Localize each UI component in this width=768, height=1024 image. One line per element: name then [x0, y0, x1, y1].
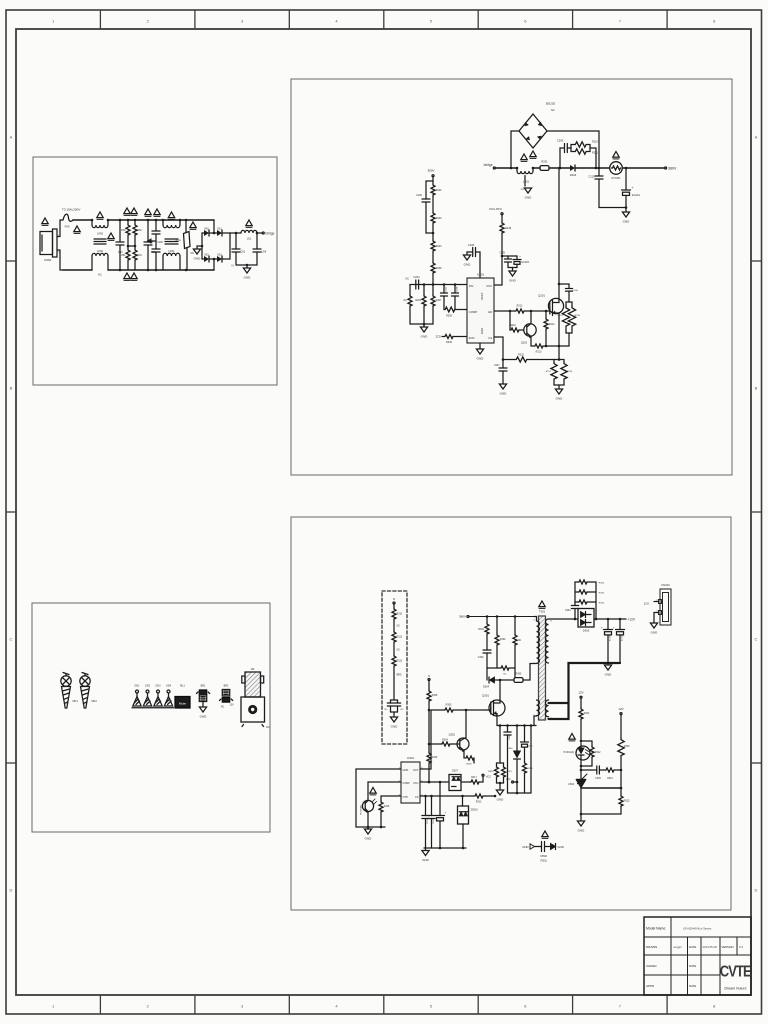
svg-text:GND: GND — [403, 768, 409, 772]
svg-text:380V: 380V — [459, 615, 466, 619]
resistor R206 — [423, 283, 426, 286]
resistor R317 — [461, 781, 470, 783]
capacitor EC312 — [439, 782, 441, 816]
svg-text:MK1: MK1 — [73, 699, 79, 703]
svg-text:R61: R61 — [121, 255, 126, 257]
wire 380V rail to transformer — [469, 616, 534, 618]
svg-text:D306: D306 — [507, 748, 513, 750]
wire OUT to gate drive — [420, 710, 431, 769]
svg-text:ZCD: ZCD — [469, 336, 475, 340]
svg-text:CVTE: CVTE — [720, 964, 752, 981]
net label 380V — [665, 167, 667, 169]
capacitor EC306 — [619, 619, 621, 630]
svg-text:R220: R220 — [592, 141, 598, 144]
PFC block frame — [291, 79, 732, 475]
svg-text:R203: R203 — [436, 217, 442, 220]
svg-text:B: B — [10, 386, 13, 391]
snubber resistor R221 — [571, 148, 574, 152]
svg-text:VCC-PFC: VCC-PFC — [489, 207, 503, 211]
inductor L201 — [516, 167, 519, 170]
resistor R305 — [514, 678, 523, 683]
svg-text:12V: 12V — [578, 691, 583, 695]
wire NTC201 to 380V terminal — [622, 167, 664, 169]
resistor R213 — [531, 345, 534, 347]
svg-text:R316: R316 — [384, 806, 390, 808]
svg-text:R62: R62 — [138, 230, 143, 232]
bridge left node wire — [201, 233, 203, 259]
svg-text:GND: GND — [558, 845, 564, 849]
diode D306 — [516, 724, 519, 727]
transistor Q301 MOSFET — [489, 700, 505, 716]
svg-text:Q201: Q201 — [538, 294, 545, 298]
wire aux return — [530, 726, 532, 794]
diode pack D307 — [449, 775, 461, 791]
svg-text:R215: R215 — [558, 315, 564, 317]
svg-text:N: N — [393, 597, 395, 601]
svg-text:R313: R313 — [397, 661, 403, 663]
svg-text:LF60: LF60 — [97, 249, 103, 253]
mechanical parts block frame — [32, 603, 270, 832]
bridge diode D61 — [209, 232, 217, 234]
ground of sense resistors — [554, 384, 564, 386]
resistor R212 — [515, 309, 524, 313]
rectifier D303 — [578, 609, 594, 628]
svg-text:NC: NC — [551, 108, 555, 112]
svg-text:NTC201: NTC201 — [612, 177, 622, 180]
snubber resistor R325 — [575, 591, 578, 593]
resistor R61 — [127, 246, 129, 249]
svg-text:R311: R311 — [584, 712, 590, 715]
svg-text:C218: C218 — [468, 243, 475, 247]
svg-text:C: C — [10, 637, 13, 642]
bridge diode D60 — [202, 232, 204, 234]
resistor R323 — [474, 794, 483, 798]
capacitor C62 — [235, 233, 237, 249]
svg-text:R222: R222 — [518, 354, 524, 357]
title block grid — [644, 936, 751, 938]
resistor R201 — [540, 166, 549, 171]
ground of C207 — [499, 384, 507, 396]
resistor R201b — [432, 177, 434, 184]
svg-text:R302: R302 — [500, 638, 506, 641]
X-capacitor C60 — [119, 219, 122, 222]
resistor R313a — [393, 649, 395, 655]
svg-text:NC: NC — [191, 252, 195, 255]
svg-text:R322: R322 — [624, 800, 630, 803]
svg-text:C208: C208 — [457, 286, 459, 292]
svg-text:D61: D61 — [217, 229, 222, 231]
svg-text:GD1: GD1 — [134, 685, 140, 688]
svg-text:A: A — [10, 135, 13, 140]
ground of regulator — [580, 814, 582, 821]
svg-text:bridge: bridge — [484, 163, 493, 167]
svg-text:OTP: OTP — [403, 795, 409, 799]
svg-text:EC201: EC201 — [632, 193, 640, 197]
svg-text:LR-N2N4X4Lxl Series: LR-N2N4X4Lxl Series — [683, 927, 712, 931]
svg-text:0-3: 0-3 — [739, 945, 743, 949]
svg-text:U301: U301 — [407, 756, 415, 760]
bridge diode D63 — [209, 258, 217, 260]
resistor R63 — [134, 246, 136, 249]
sense resistor R321 — [503, 763, 505, 766]
capacitor C314 — [431, 796, 433, 816]
wire GND pin loop — [356, 769, 401, 827]
wire divider bottom — [580, 788, 582, 814]
svg-text:R206: R206 — [416, 300, 422, 302]
transistor Q201 MOSFET — [548, 298, 563, 313]
bridge right node wire — [229, 233, 231, 259]
transformer T301 — [539, 616, 546, 720]
sense resistor R320 — [497, 762, 504, 764]
svg-text:COMP: COMP — [403, 782, 411, 785]
svg-text:12V,: 12V, — [644, 602, 650, 606]
svg-text:R310: R310 — [397, 614, 403, 616]
wire rail into primary pin — [534, 617, 537, 622]
warning triangle near C60 — [108, 233, 114, 240]
diode D304 — [488, 677, 490, 683]
svg-text:(T501): (T501) — [540, 860, 547, 863]
svg-text:L201: L201 — [523, 180, 530, 184]
wire CS route — [494, 337, 515, 360]
wire secondary return bus — [549, 663, 621, 703]
resistor R219 — [501, 215, 503, 222]
resistor R222 — [515, 357, 527, 362]
capacitor EC305 — [607, 619, 609, 630]
capacitor C205 — [501, 255, 504, 258]
border column ticks and numbers — [99, 10, 101, 29]
capacitor C207 — [502, 360, 504, 369]
wire L61 to bridge terminal — [257, 232, 262, 234]
svg-text:BD202: BD202 — [546, 102, 556, 106]
warning triangle near RV60 — [190, 222, 196, 229]
svg-text:380V: 380V — [427, 169, 434, 173]
wire aux bottom bus — [508, 792, 532, 794]
wire R215 R216 bottom — [566, 332, 572, 334]
svg-text:DATE: DATE — [689, 984, 696, 988]
resistor R207 — [432, 285, 434, 296]
svg-text:R221: R221 — [592, 152, 598, 155]
optocoupler PC301A — [576, 746, 590, 760]
resistor R211 — [509, 311, 511, 330]
connector CN301 — [660, 589, 671, 625]
svg-text:BR2: BR2 — [224, 685, 229, 688]
svg-text:+: + — [601, 626, 603, 630]
ground of option box — [391, 711, 398, 713]
svg-text:NC: NC — [397, 626, 401, 628]
svg-text:C205: C205 — [499, 252, 505, 255]
svg-text:R219: R219 — [505, 226, 512, 230]
svg-text:GD2: GD2 — [145, 685, 151, 688]
capacitor C320 — [393, 673, 395, 700]
svg-text:LF60: LF60 — [97, 232, 103, 236]
capacitor C218 — [476, 252, 481, 278]
ground of VCC caps — [508, 267, 517, 269]
bypass bridge BD202 — [511, 131, 519, 168]
svg-text:CS: CS — [488, 336, 492, 340]
snubber capacitor C302 — [483, 649, 491, 651]
svg-text:D303: D303 — [583, 629, 590, 633]
svg-text:+: + — [613, 626, 615, 630]
warning triangle above NTC201 — [613, 152, 619, 159]
transistor Q302b — [465, 710, 467, 738]
svg-text:ZCD: ZCD — [436, 335, 441, 339]
svg-text:NC: NC — [266, 726, 270, 729]
svg-text:GD4: GD4 — [166, 685, 172, 688]
svg-text:APPD: APPD — [646, 984, 655, 988]
capacitor EC203 — [516, 256, 518, 259]
svg-text:B: B — [755, 386, 758, 391]
ground of primary control — [367, 827, 369, 829]
svg-text:VCC: VCC — [486, 774, 492, 778]
title block frame — [644, 917, 751, 995]
svg-text:R326: R326 — [599, 603, 605, 605]
wire C210 EC201 common — [599, 207, 626, 209]
svg-text:C: C — [755, 637, 758, 642]
wire CS line — [420, 795, 474, 797]
capacitor C310 snubber — [523, 724, 526, 727]
svg-text:N: N — [428, 675, 430, 678]
svg-text:EC306: EC306 — [621, 634, 623, 641]
resistor R204 — [432, 233, 434, 240]
svg-text:NC: NC — [397, 650, 401, 652]
warning triangle after F60 — [74, 226, 80, 233]
snubber resistor R302 — [496, 617, 498, 635]
wire L201 to R201 — [533, 167, 540, 169]
resistor R310 — [392, 608, 396, 619]
capacitor C210 — [598, 167, 601, 170]
svg-text:D203: D203 — [570, 173, 577, 177]
svg-text:NC: NC — [98, 273, 102, 277]
net label VCC tap — [516, 781, 519, 784]
earth tap of Y-capacitors — [151, 240, 156, 242]
ground of U201 — [479, 343, 481, 349]
svg-text:NC: NC — [404, 299, 408, 302]
svg-text:A: A — [755, 135, 758, 140]
wire R divider middle link — [128, 245, 135, 247]
capacitor C206 — [558, 283, 561, 286]
svg-text:D60: D60 — [204, 229, 209, 231]
base resistor R304 — [429, 743, 441, 745]
svg-text:R208: R208 — [446, 315, 452, 318]
svg-text:+: + — [445, 811, 447, 815]
warning triangles near Y-caps — [145, 209, 151, 216]
capacitor C202 — [426, 181, 433, 199]
emitter resistor R306 — [463, 757, 465, 758]
resistor R315 — [620, 715, 622, 738]
svg-text:R305: R305 — [516, 673, 522, 676]
bridge diode D62 — [202, 258, 204, 260]
op-amp U201 PFC controller — [467, 278, 494, 343]
svg-text:R202: R202 — [436, 189, 442, 192]
wire snubber right leg — [595, 582, 597, 619]
svg-text:D307: D307 — [452, 770, 459, 773]
svg-text:Model Name:: Model Name: — [646, 927, 666, 931]
inductor L61 — [241, 230, 257, 233]
svg-text:C304: C304 — [565, 610, 571, 612]
resistor R215 — [566, 301, 572, 303]
svg-text:U302: U302 — [568, 783, 575, 786]
svg-text:C308: C308 — [509, 734, 511, 740]
svg-text:Q301: Q301 — [482, 694, 489, 698]
warning triangle near CN60 — [42, 218, 48, 225]
svg-text:C5300: C5300 — [540, 855, 548, 858]
Y-capacitor C64 — [155, 241, 157, 249]
ground of bottom bus — [425, 848, 427, 851]
snubber cap C304 — [574, 618, 577, 621]
svg-text:NC: NC — [518, 639, 522, 642]
capacitor C321 — [397, 700, 399, 703]
resistor R318b — [523, 762, 527, 773]
svg-text:12V: 12V — [229, 704, 234, 707]
capacitor C208 — [454, 283, 457, 286]
svg-text:R201: R201 — [541, 160, 548, 164]
resistor R312a — [393, 625, 395, 631]
svg-text:R218: R218 — [567, 371, 573, 373]
EMI filter block frame — [33, 157, 277, 385]
svg-text:BRD: BRD — [397, 675, 402, 677]
divider resistor R309 — [428, 710, 430, 752]
svg-text:D63: D63 — [217, 255, 222, 257]
varistor RV60 — [185, 219, 188, 222]
ground of CN301 — [653, 613, 655, 624]
svg-text:C60: C60 — [118, 251, 123, 254]
wire Q201 source down — [558, 318, 560, 360]
resistor NC leg — [409, 285, 411, 296]
snubber resistor R301 — [486, 617, 488, 624]
ground stub under L201 — [524, 176, 526, 187]
resistor R60 — [127, 219, 130, 222]
snubber capacitor C209 — [559, 167, 562, 170]
thermistor NTC201 — [599, 167, 610, 169]
svg-text:HS: HS — [251, 667, 255, 671]
svg-text:R308: R308 — [432, 695, 438, 697]
wire INV line — [410, 284, 467, 286]
dashed option box — [382, 591, 407, 744]
svg-text:R309: R309 — [432, 757, 438, 759]
shunt reference U302 TL431 — [577, 780, 586, 788]
svg-text:NC: NC — [503, 674, 507, 676]
boost diode D203 — [570, 165, 575, 171]
svg-text:R303: R303 — [446, 704, 452, 707]
wire snubber to rail — [590, 148, 596, 168]
svg-text:R205: R205 — [436, 267, 442, 270]
svg-text:C62: C62 — [241, 251, 246, 254]
wire bottom rail LF60 to bridge — [108, 269, 214, 271]
svg-text:LF61: LF61 — [169, 249, 175, 253]
svg-text:D304: D304 — [483, 686, 490, 689]
gate resistor R303 — [431, 709, 444, 711]
svg-text:CN60: CN60 — [44, 258, 52, 262]
resistor R216 — [571, 302, 573, 306]
wire drain — [499, 680, 501, 700]
warning triangle above L201 — [521, 154, 527, 161]
wire R201 to boost node — [549, 167, 570, 169]
svg-text:EC203: EC203 — [522, 261, 530, 264]
svg-text:L61: L61 — [247, 237, 252, 241]
svg-text:T3.15AL250V: T3.15AL250V — [62, 208, 80, 212]
wire bottom rail to LF60 — [63, 269, 92, 271]
warning triangles above R60 R62 — [124, 208, 130, 215]
svg-text:C203: C203 — [446, 286, 448, 292]
svg-text:D: D — [755, 888, 758, 893]
svg-text:D62: D62 — [204, 255, 209, 257]
svg-text:Q202: Q202 — [521, 342, 528, 345]
svg-text:Dream Future: Dream Future — [724, 987, 746, 991]
svg-text:2014.05.28: 2014.05.28 — [703, 945, 717, 949]
ground of C218 — [467, 252, 468, 255]
ground of sense pair — [497, 782, 504, 784]
svg-text:+12V: +12V — [628, 618, 636, 622]
svg-text:INV: INV — [469, 284, 474, 288]
common-mode choke LF60 — [91, 219, 94, 222]
svg-text:R209: R209 — [446, 341, 452, 344]
svg-text:R320: R320 — [488, 771, 494, 773]
svg-text:GD: GD — [488, 310, 492, 314]
resistor R214 — [545, 311, 547, 318]
snubber resistor NC — [514, 617, 516, 635]
wire bridge output — [230, 232, 241, 234]
svg-text:CS: CS — [415, 795, 419, 799]
wire 12V output rail — [594, 618, 626, 620]
wire PFC main rail — [495, 167, 517, 169]
svg-text:GD3: GD3 — [155, 685, 161, 688]
svg-text:Mylar: Mylar — [179, 701, 186, 705]
resistor R203 — [431, 212, 435, 223]
wire top rail to LF60 — [73, 219, 92, 221]
svg-text:R315: R315 — [624, 745, 630, 748]
node bridge output terminal — [262, 232, 264, 234]
svg-text:VCC: VCC — [506, 778, 511, 781]
ground of bulk cap — [625, 208, 627, 213]
wire CN60 to rails — [57, 220, 63, 237]
svg-text:GND: GND — [522, 845, 528, 849]
svg-text:R217: R217 — [546, 371, 552, 373]
wire clamp to primary return — [523, 664, 536, 681]
svg-text:R304: R304 — [442, 740, 448, 742]
wire AC loop to bridge — [213, 220, 215, 233]
svg-text:F60: F60 — [65, 225, 70, 229]
svg-text:DRAWN: DRAWN — [646, 945, 657, 949]
svg-text:DATE: DATE — [689, 945, 696, 949]
svg-text:C302: C302 — [478, 656, 484, 659]
sense resistor R217 — [554, 359, 564, 361]
wire GD to gate — [494, 310, 515, 312]
wire primary lower pin — [534, 716, 537, 726]
wire top rail LF60 to bridge — [108, 219, 214, 221]
zener pack ZD301 — [462, 796, 464, 806]
net label VCC out — [479, 777, 483, 783]
svg-text:R306: R306 — [466, 764, 472, 766]
svg-text:MULT: MULT — [480, 292, 484, 300]
svg-text:GND: GND — [480, 328, 484, 334]
wire Q201 drain to rail — [558, 169, 560, 298]
svg-text:C207: C207 — [494, 365, 500, 367]
op-amp U301 controller — [401, 762, 420, 803]
series cap C309 — [580, 769, 583, 772]
svg-text:R207: R207 — [436, 300, 442, 302]
svg-text:R211: R211 — [510, 324, 516, 327]
ground of BR1 — [202, 702, 204, 708]
screw MK1 — [61, 676, 71, 686]
svg-text:NC: NC — [406, 278, 410, 281]
optocoupler PC301B — [362, 800, 373, 811]
warning triangle near PC301B — [370, 788, 376, 795]
flyback block frame — [291, 517, 731, 910]
snubber resistor R326 — [575, 601, 578, 603]
svg-text:NC: NC — [384, 709, 388, 711]
svg-text:C210: C210 — [589, 176, 596, 179]
svg-text:VCC: VCC — [413, 781, 419, 785]
